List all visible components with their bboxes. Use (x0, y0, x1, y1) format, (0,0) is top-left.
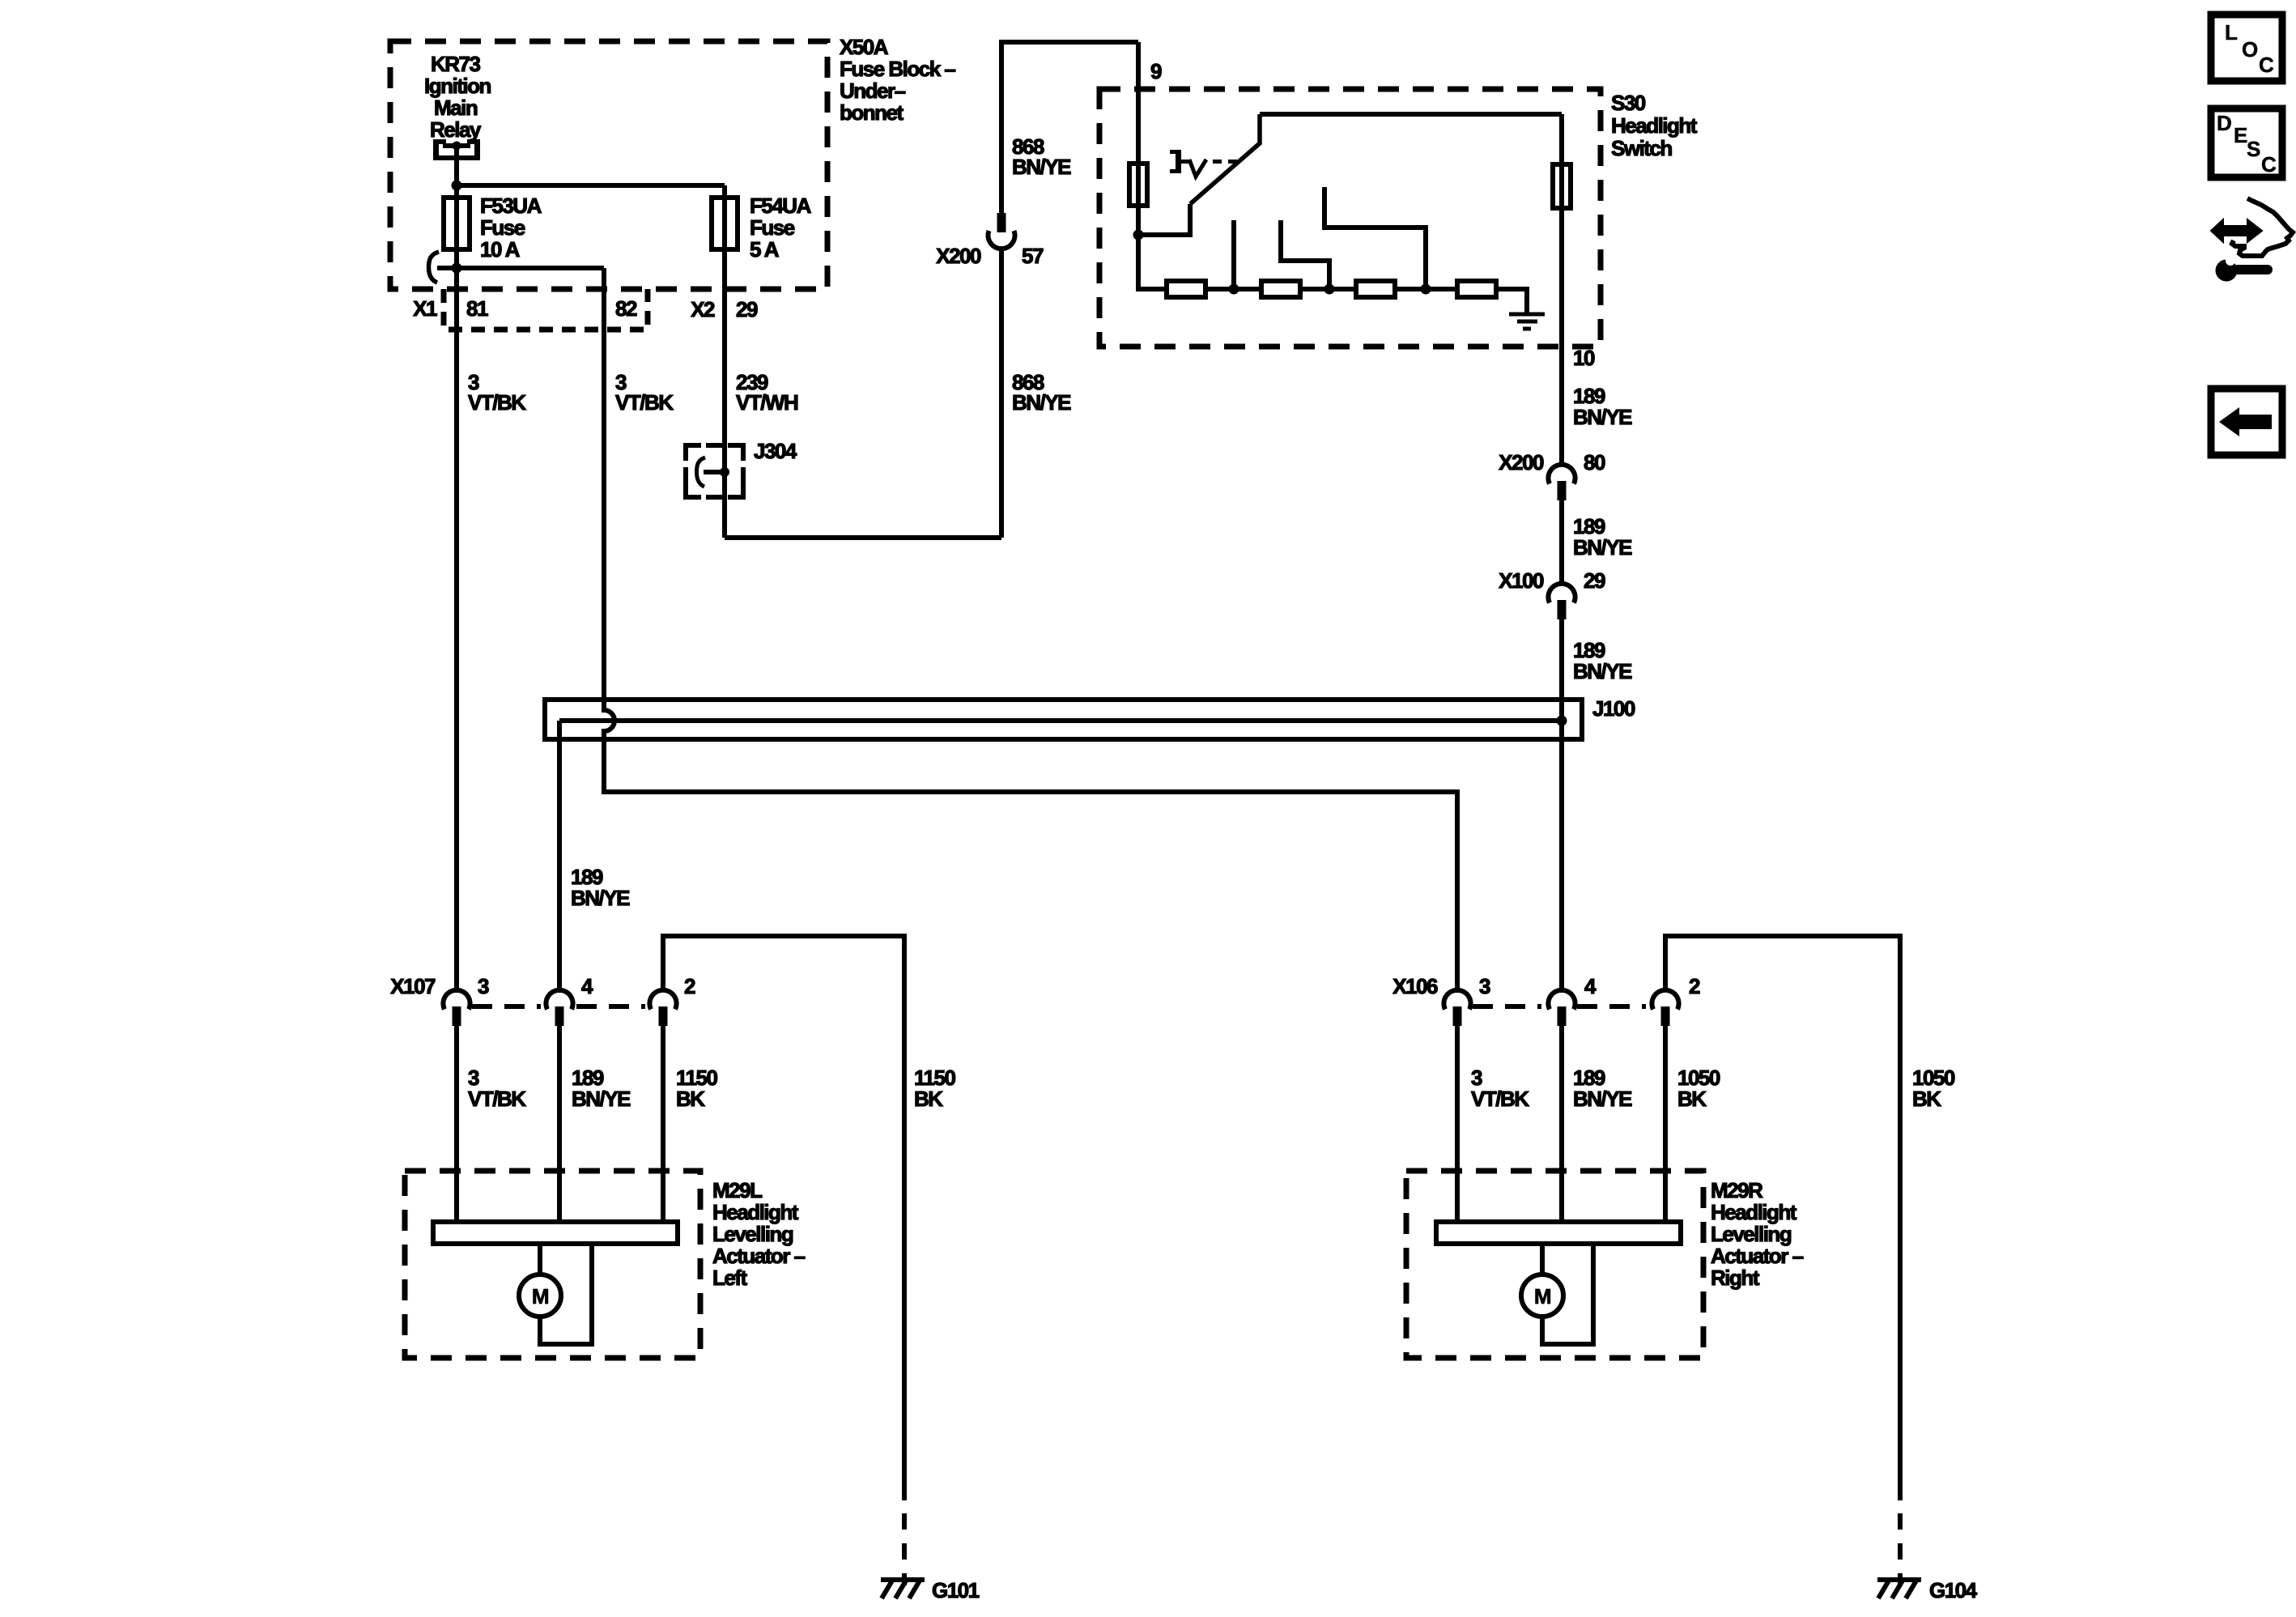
S30: tap 3 (1324, 187, 1426, 289)
wire: X106-2 to actuator bar (1663, 1025, 1668, 1224)
svg-text:VT/BK: VT/BK (468, 390, 526, 415)
svg-text:Fuse: Fuse (480, 215, 525, 240)
svg-text:C: C (2259, 53, 2274, 77)
label S30 Headlight Switch (1611, 91, 1698, 160)
M29R motor leg left (1540, 1244, 1545, 1274)
connector symbol: hook at X1 pin 81 exit (429, 252, 440, 283)
svg-text:BK: BK (914, 1087, 943, 1111)
S30: ladder resistor 3 (1356, 281, 1395, 297)
label wire 189 BN/YE (above J100) (1573, 638, 1632, 683)
wire: 1050 BK ground run (right) (1665, 936, 1900, 1500)
svg-text:Under–: Under– (840, 79, 906, 103)
wire: dashed tail to G101 (902, 1513, 907, 1585)
svg-text:VT/BK: VT/BK (1471, 1087, 1529, 1111)
svg-text:J304: J304 (754, 439, 797, 463)
wire: S30 pin 9 drop (1136, 42, 1141, 289)
connector X200 pin 57 male stub (997, 213, 1006, 232)
svg-text:Relay: Relay (430, 117, 482, 142)
svg-text:5 A: 5 A (750, 237, 780, 262)
svg-text:29: 29 (736, 297, 758, 321)
svg-text:Right: Right (1711, 1266, 1760, 1290)
svg-text:57: 57 (1022, 244, 1044, 268)
M29R motor loop (1542, 1244, 1593, 1344)
svg-text:2: 2 (684, 974, 695, 998)
label wire 1050 BK (ground run right) (1912, 1066, 1955, 1111)
svg-text:X200: X200 (1499, 450, 1544, 474)
splice J304 tick (704, 470, 725, 474)
svg-text:BN/YE: BN/YE (571, 886, 630, 910)
wire: relay output vertical 3 VT/BK (W1 from relay to X107 pin 3) (454, 146, 459, 993)
splice J304 hook symbol (697, 457, 706, 487)
svg-text:BN/YE: BN/YE (1012, 155, 1071, 179)
svg-text:bonnet: bonnet (840, 100, 904, 125)
svg-text:X106: X106 (1392, 974, 1438, 998)
connector X1 pin row dashed box (444, 289, 648, 330)
wire: branch to F54UA fuse at y=229 (457, 183, 725, 188)
svg-text:BN/YE: BN/YE (1573, 535, 1632, 560)
wire: X107-2 to actuator bar (661, 1025, 665, 1224)
S30: node dot tap2 (1324, 284, 1335, 295)
svg-text:X107: X107 (390, 974, 436, 998)
label X50A Fuse Block Underbonnet (840, 35, 955, 125)
wire: X106-3 to actuator bar (1455, 1025, 1460, 1224)
S30: left resistor (1129, 164, 1147, 206)
wire: 189 BN/YE left drop from J100 to X107 pin 4 (557, 721, 562, 993)
connector X107 pin 3 (443, 990, 470, 1026)
svg-text:BK: BK (676, 1087, 705, 1111)
svg-text:9: 9 (1150, 59, 1162, 83)
S30: bottom resistor ladder wire (1138, 235, 1527, 313)
svg-text:Headlight: Headlight (1611, 113, 1698, 138)
wire: top horizontal to S30 pin 9 (999, 40, 1138, 45)
label M29R Headlight Levelling Actuator Right (1711, 1178, 1804, 1290)
svg-text:4: 4 (581, 974, 593, 998)
connector X200 pin 57 female cup (989, 231, 1015, 249)
icon DESC box (2211, 109, 2282, 177)
svg-text:10: 10 (1573, 346, 1595, 370)
svg-text:J100: J100 (1592, 696, 1635, 721)
svg-text:BK: BK (1677, 1087, 1707, 1111)
svg-text:S: S (2247, 137, 2260, 161)
svg-text:Ignition: Ignition (424, 74, 491, 98)
splice J304 junction dot (720, 467, 729, 477)
svg-text:M: M (1534, 1284, 1550, 1308)
svg-text:3: 3 (1479, 974, 1490, 998)
svg-text:VT/WH: VT/WH (736, 390, 798, 415)
svg-text:BN/YE: BN/YE (572, 1087, 631, 1111)
connector X200 pin 80 (1548, 465, 1575, 500)
connector X106 pin 2 (1652, 990, 1678, 1026)
connector X106 pin 3 (1444, 990, 1470, 1026)
svg-text:BN/YE: BN/YE (1573, 405, 1632, 429)
svg-text:Switch: Switch (1611, 136, 1672, 160)
svg-text:F54UA: F54UA (750, 194, 812, 218)
wire: X106-4 to actuator bar (1559, 1025, 1564, 1224)
svg-text:VT/BK: VT/BK (468, 1087, 526, 1111)
svg-text:Actuator –: Actuator – (712, 1244, 806, 1268)
svg-text:X50A: X50A (840, 35, 889, 59)
component box S30 Headlight Switch dashed outline (1099, 89, 1601, 347)
wire: 3 VT/BK pin 82 drop with hop over J100 (604, 268, 1457, 993)
S30: node junction dot pin9 leg (1133, 230, 1144, 240)
svg-text:D: D (2217, 111, 2231, 135)
component box X50A Fuse Block dashed outline (390, 41, 827, 289)
svg-text:S30: S30 (1611, 91, 1646, 115)
connector X107 pin 4 (546, 990, 572, 1026)
svg-text:Headlight: Headlight (1711, 1200, 1797, 1224)
S30: ladder resistor 2 (1261, 281, 1300, 297)
motor M (right) (1521, 1274, 1563, 1317)
connector X107 pin 2 (649, 990, 676, 1026)
svg-text:82: 82 (615, 296, 637, 321)
S30: right resistor (1553, 164, 1571, 208)
fuse F54UA 5 A (712, 198, 738, 249)
svg-text:Main: Main (434, 96, 478, 120)
svg-text:X1: X1 (413, 296, 437, 321)
svg-text:L: L (2225, 20, 2238, 45)
svg-text:80: 80 (1584, 450, 1605, 474)
svg-text:Fuse Block –: Fuse Block – (840, 57, 955, 81)
svg-text:C: C (2261, 152, 2277, 177)
icon hand with double arrow and wrench (2211, 198, 2293, 282)
wire: dashed tail to G104 (1898, 1513, 1903, 1585)
wire: 189 BN/YE between X200 and X100 (1559, 500, 1564, 585)
S30: node dot tap1 (1229, 284, 1239, 295)
svg-text:Levelling: Levelling (1711, 1222, 1792, 1246)
svg-text:G101: G101 (932, 1578, 980, 1602)
svg-text:81: 81 (466, 296, 488, 321)
wire: X107-3 to actuator bar (454, 1025, 459, 1224)
svg-text:F53UA: F53UA (480, 194, 542, 218)
connector X106 dashed pin line (1473, 1004, 1646, 1009)
wire: X107-4 to actuator bar (557, 1025, 562, 1224)
svg-text:Levelling: Levelling (712, 1222, 793, 1246)
relay KR73 contact symbol (433, 139, 480, 160)
label wire 189 BN/YE (below pin 10) (1573, 384, 1632, 429)
label F54UA Fuse 5 A (750, 194, 812, 262)
wire: 868 BN/YE above X200 (999, 42, 1004, 213)
ground G101 symbol (881, 1580, 925, 1598)
icon back arrow box (2211, 389, 2282, 455)
wire: 1150 BK ground run (left) (663, 936, 904, 1500)
label wire 3 VT/BK (X106-3) (1471, 1066, 1529, 1111)
S30: top internal wire (1260, 112, 1562, 117)
wire: 189 BN/YE from X100 to J100 and X106 pin 4 (1559, 619, 1564, 993)
splice J100 bus wire (559, 718, 1562, 723)
svg-text:BN/YE: BN/YE (1012, 390, 1071, 415)
svg-text:BN/YE: BN/YE (1573, 1087, 1632, 1111)
svg-text:2: 2 (1689, 974, 1700, 998)
label wire 189 BN/YE (X106-4) (1573, 1066, 1632, 1111)
label wire 1150 BK (X107-2) (676, 1066, 717, 1111)
svg-text:E: E (2234, 123, 2247, 147)
label F53UA Fuse 10 A (480, 194, 542, 262)
label M29L Headlight Levelling Actuator Left (712, 1178, 806, 1290)
label wire 239 VT/WH (736, 370, 798, 415)
label wire 1150 BK (ground run) (914, 1066, 955, 1111)
svg-text:Actuator –: Actuator – (1711, 1244, 1804, 1268)
S30: ladder resistor 1 (1167, 281, 1205, 297)
ground G104 symbol (1877, 1580, 1921, 1598)
label wire 3 VT/BK (pin 81) (468, 370, 526, 415)
label wire 189 BN/YE (X107-4) (572, 1066, 631, 1111)
S30: right leg wire (1559, 114, 1564, 347)
node: junction dot at relay branch (452, 181, 462, 191)
wire: 189 BN/YE from S30 pin 10 down (1559, 347, 1564, 466)
label wire 189 BN/YE (left drop) (571, 865, 630, 910)
svg-text:X200: X200 (936, 244, 981, 268)
node: junction dot below F53UA (452, 263, 462, 274)
svg-text:O: O (2242, 37, 2258, 62)
motor M (left) (519, 1274, 561, 1317)
connector X107 dashed pin line (472, 1004, 645, 1009)
label wire 868 BN/YE (lower) (1012, 370, 1071, 415)
svg-text:M29R: M29R (1711, 1178, 1763, 1202)
svg-text:Headlight: Headlight (712, 1200, 799, 1224)
svg-text:4: 4 (1584, 974, 1597, 998)
svg-text:Fuse: Fuse (750, 215, 795, 240)
M29R connector bar (1436, 1222, 1681, 1244)
label wire 1050 BK (X106-2) (1677, 1066, 1720, 1111)
label wire 3 VT/BK (pin 82) (615, 370, 674, 415)
svg-text:3: 3 (478, 974, 489, 998)
label KR73 Ignition Main Relay (424, 52, 491, 142)
S30: tap 2 (1281, 220, 1329, 289)
svg-text:KR73: KR73 (431, 52, 481, 76)
svg-text:BK: BK (1912, 1087, 1941, 1111)
svg-text:29: 29 (1584, 568, 1605, 593)
label wire 3 VT/BK (X107-3) (468, 1066, 526, 1111)
svg-text:M: M (532, 1284, 548, 1308)
M29L motor loop (540, 1244, 592, 1344)
wire: branch to pin 82 at y=331 (437, 266, 604, 270)
S30: node dot tap3 (1421, 284, 1431, 295)
S30: wire junction to lever pivot (1138, 204, 1190, 235)
splice J100 junction dot (1557, 716, 1567, 726)
svg-text:10 A: 10 A (480, 237, 521, 262)
svg-text:BN/YE: BN/YE (1573, 659, 1632, 683)
label wire 868 BN/YE (upper) (1012, 134, 1071, 179)
fuse F53UA 10 A (444, 198, 470, 249)
wire: 239 VT/WH vertical (F54UA to J304 to corner) (722, 185, 727, 538)
connector X106 pin 4 (1548, 990, 1575, 1026)
svg-text:G104: G104 (1929, 1578, 1978, 1602)
S30: ladder resistor 4 (1457, 281, 1496, 297)
wire: 868 BN/YE up to X200 pin 57 (999, 249, 1004, 538)
svg-text:X100: X100 (1499, 568, 1544, 593)
M29L motor leg left (538, 1244, 542, 1274)
svg-text:Left: Left (712, 1266, 748, 1290)
wire: horizontal link at y=664 (725, 535, 1001, 540)
component box M29L dashed outline (405, 1171, 700, 1358)
svg-text:X2: X2 (691, 297, 715, 321)
S30: switch lever (1190, 114, 1260, 204)
splice J100 box (545, 700, 1582, 739)
component box M29R dashed outline (1406, 1171, 1703, 1358)
svg-text:VT/BK: VT/BK (615, 390, 674, 415)
icon LOC box (2211, 15, 2282, 81)
connector X100 pin 29 (1548, 584, 1575, 619)
splice J304 dashed box (686, 445, 743, 497)
S30: detent bracket symbol (1170, 150, 1237, 177)
S30: internal earth ground (1509, 314, 1545, 329)
svg-text:M29L: M29L (712, 1178, 763, 1202)
S30: tap 1 (1231, 220, 1236, 289)
M29L connector bar (433, 1222, 678, 1244)
label wire 189 BN/YE (X200-X100) (1573, 514, 1632, 560)
